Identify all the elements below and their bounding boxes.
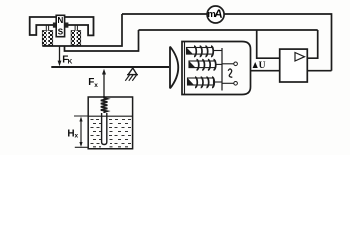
force arrow FK [59, 46, 61, 64]
svg-text:x: x [94, 82, 98, 89]
label delta-U [253, 62, 258, 68]
spring [101, 96, 108, 113]
link bottom winding to riser [214, 81, 223, 83]
svg-text:U: U [259, 61, 266, 71]
displacer tube [102, 113, 107, 145]
beam (lever) [51, 66, 169, 68]
terminal dot lower [234, 82, 238, 86]
terminal riser wire [221, 48, 223, 91]
amplifier box [280, 49, 308, 82]
pole plate stubs above right coil [75, 25, 77, 31]
pivot (fulcrum triangle with hatching) [128, 68, 137, 75]
svg-text:K: K [68, 58, 73, 65]
wire B: coil second lead to lower bus [65, 30, 139, 51]
milliammeter mA [207, 6, 224, 23]
terminal stub upper [222, 63, 234, 65]
second bus wire [139, 29, 318, 31]
pole piece right of magnet [65, 23, 69, 28]
wire A: coil bottom line to top bus [42, 14, 122, 46]
transducer moving vane (arc) [170, 47, 178, 89]
terminal stub lower [222, 82, 234, 84]
wire bus to amp upper input [257, 30, 280, 58]
link top winding to riser [213, 50, 222, 52]
force arrow Fx (rod from spring to beam) [103, 72, 105, 98]
svg-text:N: N [58, 16, 64, 25]
permanent magnet N-S [56, 15, 64, 36]
amp output to bus via right riser [307, 30, 317, 58]
liquid level line [74, 115, 133, 117]
coil right (checkerboard winding cross-section) [71, 31, 81, 46]
coil left (checkerboard winding cross-section) [42, 31, 52, 46]
winding bottom [188, 77, 215, 87]
svg-text:S: S [58, 28, 64, 37]
liquid dashes [91, 120, 132, 147]
svg-text:x: x [75, 133, 79, 140]
Hx level arrow (double headed) [75, 146, 88, 148]
winding middle [189, 60, 216, 70]
amplifier triangle [295, 53, 305, 62]
AC squiggle [228, 69, 232, 77]
svg-text:A: A [214, 8, 224, 21]
winding top [187, 46, 214, 56]
magnet yoke (top bar with two side arms) [30, 17, 94, 35]
pole piece left of magnet [53, 23, 56, 28]
container (vessel) [88, 97, 132, 149]
amp output lower to feedback wire [307, 70, 331, 72]
top feedback wire [122, 14, 332, 71]
link middle winding to riser [216, 63, 223, 65]
transducer box with left spine [182, 42, 251, 95]
terminal dot upper [234, 62, 238, 66]
pole plate stubs above left coil [46, 25, 48, 31]
wire transducer to amp lower input [251, 70, 280, 72]
